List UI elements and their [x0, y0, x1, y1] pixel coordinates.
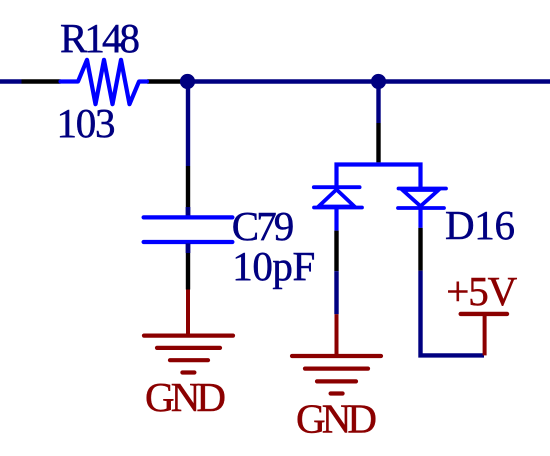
svg-text:R148: R148	[60, 15, 140, 61]
svg-text:10pF: 10pF	[232, 243, 315, 289]
svg-text:103: 103	[57, 100, 116, 146]
svg-text:D16: D16	[445, 202, 515, 248]
svg-text:GND: GND	[296, 396, 377, 442]
svg-text:+5V: +5V	[446, 268, 517, 314]
svg-text:GND: GND	[145, 374, 226, 420]
